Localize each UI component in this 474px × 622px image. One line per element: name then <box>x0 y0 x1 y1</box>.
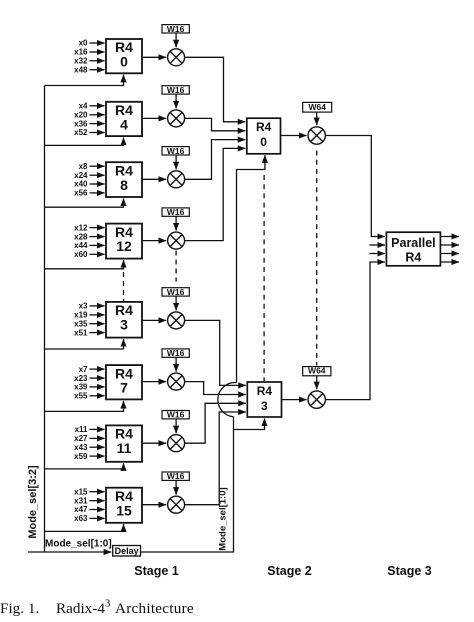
svg-text:Mode_sel[3:2]: Mode_sel[3:2] <box>27 465 39 539</box>
svg-text:Fig. 1.Radix-43Architecture: Fig. 1.Radix-43Architecture <box>0 599 194 618</box>
R4 butterfly U2 (R4 4) <box>106 102 142 136</box>
R4 butterfly U4 (R4 12) <box>106 224 142 259</box>
node input labels x12/x28/x44/x60 <box>74 223 88 259</box>
wire input arrows into R4 8 <box>90 166 105 193</box>
wire Parallel R4 output 2 <box>440 244 459 246</box>
svg-text:Delay: Delay <box>115 546 139 556</box>
wire Mode_sel[3:2] vertical bus <box>44 86 46 553</box>
wire R4 0 output to multiplier M1 <box>142 56 166 58</box>
svg-text:W16: W16 <box>167 146 185 156</box>
svg-text:7: 7 <box>120 380 128 396</box>
wire Mode_sel[1:0] input line <box>28 551 111 553</box>
svg-text:x60: x60 <box>74 250 88 259</box>
wire dashed ellipsis (multiplier column) <box>175 251 177 282</box>
wire Parallel R4 output 4 <box>440 261 459 263</box>
svg-text:W16: W16 <box>167 207 185 217</box>
svg-text:Parallel: Parallel <box>391 236 435 250</box>
svg-text:R4: R4 <box>405 251 421 265</box>
wire input arrows into R4 0 <box>90 43 105 70</box>
svg-text:W16: W16 <box>167 85 185 95</box>
wire W16 to multiplier M2 <box>175 94 177 108</box>
wire W16 to multiplier M1 <box>175 33 177 47</box>
W16 twiddle label box (row 2) <box>162 85 189 95</box>
wire R4 12 output to multiplier M4 <box>142 240 166 242</box>
wire input arrows into R4 12 <box>90 228 105 255</box>
wire dashed ellipsis (mode-sel column) <box>123 272 125 302</box>
wire input arrows into R4 7 <box>90 369 105 396</box>
wire input arrows into R4 15 <box>90 492 105 519</box>
multiplier M4 <box>168 232 185 249</box>
wire Mode_sel[3:2] branch to R4 7 <box>45 401 124 412</box>
wire input arrows into R4 3 <box>90 306 105 333</box>
wire multiplier M6 to stage-2 R4 3 in2 <box>185 382 246 395</box>
node input labels x15/x31/x47/x63 <box>74 487 88 523</box>
svg-text:x32: x32 <box>74 57 88 66</box>
svg-text:W16: W16 <box>167 287 185 297</box>
svg-text:R4: R4 <box>256 120 272 134</box>
svg-text:W16: W16 <box>167 410 185 420</box>
wire M9 output to Parallel R4 in1 <box>325 136 385 237</box>
W64 twiddle label box (M10) <box>303 366 331 376</box>
W16 twiddle label box (row 4) <box>162 207 189 217</box>
R4 butterfly U9 (stage-2 R4 0) <box>247 118 281 154</box>
svg-text:x31: x31 <box>74 496 88 505</box>
R4 butterfly U5 (R4 3) <box>106 302 142 338</box>
svg-text:x23: x23 <box>74 374 88 383</box>
wire M10 output to Parallel R4 in4 <box>325 262 385 400</box>
wire multiplier M4 to stage-2 R4 0 in4 <box>185 148 246 240</box>
wire Parallel R4 in3 stub <box>370 253 385 255</box>
svg-text:Stage 1: Stage 1 <box>134 564 179 578</box>
wire input arrows into R4 11 <box>90 429 105 456</box>
svg-text:x48: x48 <box>74 65 88 74</box>
multiplier M2 <box>168 110 185 127</box>
svg-text:x63: x63 <box>74 514 88 523</box>
wire W16 to multiplier M7 <box>175 419 177 433</box>
wire multiplier M3 to stage-2 R4 0 in3 <box>185 140 246 180</box>
svg-text:W16: W16 <box>167 471 185 481</box>
node input labels x8/x24/x40/x56 <box>74 162 88 198</box>
W16 twiddle label box (row 1) <box>162 24 189 34</box>
wire Mode_sel[1:0] branch to stage-2 R4 3 <box>234 419 265 430</box>
wire W16 to multiplier M3 <box>175 155 177 169</box>
wire Mode_sel[3:2] branch to R4 15 <box>45 524 124 531</box>
svg-text:x8: x8 <box>79 162 88 171</box>
svg-text:x28: x28 <box>74 232 88 241</box>
R4 butterfly U10 (stage-2 R4 3) <box>247 382 281 417</box>
node input labels x4/x20/x36/x52 <box>74 102 88 138</box>
svg-text:x19: x19 <box>74 311 88 320</box>
svg-text:x3: x3 <box>79 302 88 311</box>
svg-text:x12: x12 <box>74 223 88 232</box>
svg-text:x16: x16 <box>74 48 88 57</box>
delay block <box>113 546 141 557</box>
svg-text:4: 4 <box>120 116 128 132</box>
W16 twiddle label box (row 7) <box>162 410 189 420</box>
node input labels x3/x19/x35/x51 <box>74 302 88 338</box>
svg-text:W64: W64 <box>308 102 326 112</box>
node input labels x0/x16/x32/x48 <box>74 39 88 75</box>
W16 twiddle label box (row 8) <box>162 471 189 481</box>
wire W16 to multiplier M8 <box>175 480 177 494</box>
wire Parallel R4 output 1 <box>440 236 459 238</box>
svg-text:Stage 2: Stage 2 <box>267 564 312 578</box>
wire stage-2 R4 output to multiplier M10 <box>282 399 307 401</box>
wire dashed ellipsis (stage-2 box column) <box>263 175 265 381</box>
svg-text:x11: x11 <box>75 425 88 434</box>
multiplier M8 <box>168 496 185 513</box>
svg-text:x52: x52 <box>74 128 88 137</box>
multiplier M1 <box>168 49 185 66</box>
multiplier M5 <box>168 312 185 329</box>
svg-text:8: 8 <box>120 177 128 193</box>
wire W16 to multiplier M4 <box>175 216 177 230</box>
svg-text:x44: x44 <box>74 241 88 250</box>
svg-text:3: 3 <box>261 399 268 413</box>
wire R4 7 output to multiplier M6 <box>142 381 166 383</box>
Parallel R4 block U11 <box>386 232 440 266</box>
svg-text:x51: x51 <box>74 328 88 337</box>
R4 butterfly U8 (R4 15) <box>106 488 142 523</box>
svg-text:12: 12 <box>116 238 132 254</box>
wire Mode_sel[3:2] branch to R4 11 <box>45 463 124 469</box>
svg-text:x56: x56 <box>74 189 88 198</box>
wire Mode_sel[3:2] branch to R4 12 <box>45 260 124 269</box>
wire riser to stage-2 R4 0 <box>237 155 265 382</box>
svg-text:x35: x35 <box>74 319 88 328</box>
svg-text:W64: W64 <box>308 366 326 376</box>
svg-text:Mode_sel[1:0]: Mode_sel[1:0] <box>218 487 229 550</box>
W16 twiddle label box (row 5) <box>162 287 189 297</box>
wire input arrows into R4 4 <box>90 106 105 133</box>
svg-text:Mode_sel[1:0]: Mode_sel[1:0] <box>45 539 112 550</box>
svg-text:11: 11 <box>117 440 132 456</box>
svg-text:3: 3 <box>120 317 128 333</box>
svg-text:x4: x4 <box>79 102 88 111</box>
W16 twiddle label box (row 6) <box>162 348 189 358</box>
svg-text:x0: x0 <box>79 39 88 48</box>
svg-text:x59: x59 <box>74 452 88 461</box>
multiplier M10 <box>308 391 325 408</box>
wire Parallel R4 in2 stub <box>370 244 385 246</box>
wire multiplier M5 to stage-2 R4 3 in1 <box>185 320 246 385</box>
wire R4 11 output to multiplier M7 <box>142 442 166 444</box>
wire multiplier M2 to stage-2 R4 0 in2 <box>185 118 246 130</box>
svg-text:x20: x20 <box>74 111 88 120</box>
multiplier M3 <box>168 171 185 188</box>
wire Mode_sel[3:2] branch to R4 3 <box>45 339 124 349</box>
svg-text:15: 15 <box>116 502 132 518</box>
wire R4 15 output to multiplier M8 <box>142 504 166 506</box>
R4 butterfly U7 (R4 11) <box>106 425 142 461</box>
multiplier M7 <box>168 435 185 452</box>
wire Mode_sel[3:2] branch to R4 4 <box>45 138 124 146</box>
svg-text:x40: x40 <box>74 180 88 189</box>
svg-text:W16: W16 <box>167 24 185 34</box>
wire Delay output to stage-2 (vertical riser) <box>141 417 234 552</box>
node input labels x7/x23/x39/x55 <box>74 365 88 401</box>
svg-text:x15: x15 <box>74 487 88 496</box>
wire multiplier M1 to stage-2 R4 0 in1 <box>185 57 246 122</box>
svg-text:0: 0 <box>260 135 267 149</box>
svg-text:Stage 3: Stage 3 <box>387 564 432 578</box>
multiplier M6 <box>168 373 185 390</box>
wire multiplier M7 to stage-2 R4 3 in3 <box>185 403 246 443</box>
wire Mode_sel[3:2] branch to R4 8 <box>45 199 124 208</box>
wire multiplier M8 to stage-2 R4 3 in4 <box>185 412 246 505</box>
svg-text:x55: x55 <box>74 392 88 401</box>
wire W64 to multiplier M10 <box>316 376 318 389</box>
R4 butterfly U1 (R4 0) <box>106 39 142 73</box>
W64 twiddle label box (M9) <box>303 102 332 112</box>
wire R4 8 output to multiplier M3 <box>142 178 166 180</box>
wire W16 to multiplier M6 <box>175 357 177 371</box>
svg-text:x39: x39 <box>74 383 88 392</box>
wire W64 to multiplier M9 <box>316 112 318 125</box>
wire W16 to multiplier M5 <box>175 296 177 310</box>
wire Parallel R4 output 3 <box>440 253 459 255</box>
wire Mode_sel[3:2] branch to R4 0 <box>45 75 124 86</box>
R4 butterfly U3 (R4 8) <box>106 162 142 197</box>
svg-text:x36: x36 <box>74 119 88 128</box>
svg-text:x27: x27 <box>74 434 88 443</box>
wire R4 3 output to multiplier M5 <box>142 319 166 321</box>
W16 twiddle label box (row 3) <box>162 146 189 156</box>
svg-text:x7: x7 <box>79 365 88 374</box>
wire dashed ellipsis (stage-2 multiplier column) <box>316 151 318 366</box>
R4 butterfly U6 (R4 7) <box>106 365 142 399</box>
svg-text:x47: x47 <box>74 505 88 514</box>
wire hop arc over R4 3 inputs <box>218 383 237 417</box>
multiplier M9 <box>308 127 325 144</box>
svg-text:W16: W16 <box>167 348 185 358</box>
wire stage-2 R4 output to multiplier M9 <box>281 135 307 137</box>
svg-text:0: 0 <box>120 54 128 70</box>
svg-text:R4: R4 <box>257 384 273 398</box>
wire R4 4 output to multiplier M2 <box>142 117 166 119</box>
svg-text:x43: x43 <box>74 443 88 452</box>
svg-text:x24: x24 <box>74 171 88 180</box>
node input labels x11/x27/x43/x59 <box>74 425 88 461</box>
